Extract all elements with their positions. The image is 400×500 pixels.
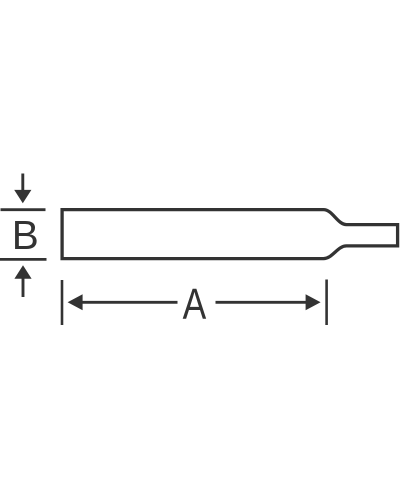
A dimension right extension line — [325, 280, 328, 326]
A dimension line left segment — [82, 301, 178, 304]
B up arrow shaft — [22, 278, 25, 297]
A right arrow head — [306, 294, 321, 310]
B dimension bottom extension line — [0, 258, 47, 261]
A dimension line right segment — [216, 301, 307, 304]
B down arrow shaft — [21, 174, 24, 192]
B down arrow head — [14, 190, 31, 203]
A left arrow head — [68, 294, 83, 310]
svg-text:A: A — [183, 281, 207, 329]
A dimension left extension line — [61, 280, 64, 325]
file body outline — [62, 210, 398, 259]
svg-text:B: B — [12, 212, 39, 258]
B up arrow head — [14, 265, 31, 278]
B dimension top extension line — [1, 208, 46, 211]
